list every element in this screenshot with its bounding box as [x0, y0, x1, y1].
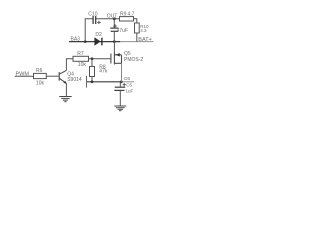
node junction R7 R8 gate: [91, 57, 94, 60]
label C10: [88, 12, 97, 18]
svg-text:S9014: S9014: [67, 77, 82, 83]
drain stub: [114, 62, 121, 64]
node junction 47uF riser rail1: [113, 40, 116, 43]
resistor R6: [34, 73, 47, 78]
svg-text:10k: 10k: [36, 80, 45, 86]
plus sign of C5: [123, 83, 126, 86]
capacitor C10: [93, 16, 96, 24]
svg-text:D5: D5: [124, 76, 130, 81]
transistor Q4: [59, 70, 66, 83]
wire R10 bottom lead: [136, 33, 138, 42]
svg-text:OUT: OUT: [107, 14, 118, 20]
ground G2 under C5: [114, 106, 126, 111]
wire C10 to OUT node and R9: [96, 18, 120, 20]
svg-text:BAT+: BAT+: [138, 37, 152, 43]
svg-text:R9: R9: [120, 12, 127, 18]
diode D2: [94, 37, 100, 45]
label OUT net: [107, 14, 118, 20]
resistor R9: [120, 17, 134, 21]
wire Q4 emitter riser to ground: [65, 83, 67, 96]
label PMOS-2: [124, 57, 143, 63]
wire R8 top lead: [91, 59, 93, 67]
wire C5 stem upper: [119, 82, 121, 87]
plus sign of C10: [97, 21, 100, 24]
label R9: [120, 12, 135, 18]
wire 47uF riser bottom: [113, 31, 115, 41]
Q5 arrow: [115, 53, 120, 56]
wire Q5 source pin up to rail1: [113, 42, 115, 53]
bulk stub: [114, 54, 121, 56]
label R10: [140, 24, 149, 29]
label R6: [36, 68, 43, 74]
svg-text:10k: 10k: [78, 62, 87, 68]
label PWM: [16, 72, 30, 78]
svg-text:Q5: Q5: [124, 51, 131, 57]
resistor R8: [90, 67, 95, 77]
label C5: [126, 82, 132, 87]
svg-text:PWM: PWM: [16, 72, 30, 78]
label 4.3 of R10: [140, 28, 147, 33]
node junction OUT: [113, 18, 116, 21]
label BAT+ net: [138, 37, 152, 43]
wire stub at rail2 left end: [86, 76, 88, 88]
svg-text:4.7: 4.7: [128, 12, 135, 18]
wire R7 to Q5 gate: [89, 58, 111, 60]
right bar: [121, 55, 123, 64]
svg-text:1uF: 1uF: [126, 89, 134, 94]
svg-text:R7: R7: [77, 51, 84, 57]
node junction R8 rail2: [91, 80, 94, 83]
label R8: [99, 64, 106, 70]
wire rail1 light right segment: [120, 41, 153, 43]
wire C10 riser from rail1: [85, 19, 93, 42]
channel bar: [113, 53, 115, 65]
node junction C10 riser rail1: [84, 40, 87, 43]
ground G1 under Q4: [59, 97, 71, 102]
svg-text:C5: C5: [126, 82, 132, 87]
label 1uF of C5: [126, 89, 134, 94]
capacitor C5: [114, 87, 125, 90]
svg-text:4.3: 4.3: [140, 28, 147, 33]
wire C5 stem lower to ground: [119, 91, 121, 106]
svg-text:BA3: BA3: [71, 37, 81, 43]
label 47uF: [117, 28, 128, 34]
wire R6 to Q4 base: [46, 75, 59, 77]
label Q5: [124, 51, 131, 57]
label D5 net on rail2: [124, 76, 130, 81]
label S9014: [67, 77, 82, 83]
svg-text:C10: C10: [88, 12, 97, 18]
label BA3 net: [71, 37, 81, 43]
svg-text:47uF: 47uF: [117, 28, 128, 34]
wire Q4 collector riser to R7: [66, 59, 73, 71]
wire 47uF riser top: [113, 19, 115, 28]
capacitor C4 47uF: [110, 28, 118, 31]
wire R9 to R10 corner: [134, 19, 137, 23]
label Q4: [67, 72, 74, 78]
svg-text:47k: 47k: [99, 69, 108, 75]
transistor Q5 PMOS: [111, 53, 122, 65]
resistor R7: [73, 56, 89, 61]
wire PWM input to R6: [15, 75, 34, 77]
gate bar: [110, 54, 112, 64]
wire rail2 light right segment: [122, 81, 135, 83]
resistor R10: [135, 23, 140, 33]
label D2: [95, 32, 102, 38]
label 47k of R8: [99, 69, 108, 75]
label R7: [77, 51, 84, 57]
svg-text:Q4: Q4: [67, 72, 74, 78]
wire Q5 drain riser: [121, 63, 123, 82]
wire R8 bottom lead: [91, 77, 93, 82]
plus sign of 47uF: [113, 24, 116, 27]
svg-text:PMOS-2: PMOS-2: [124, 57, 143, 63]
svg-text:R6: R6: [36, 68, 43, 74]
label 10k of R6: [36, 80, 45, 86]
svg-text:D2: D2: [95, 32, 102, 38]
Q4 emitter arrow: [63, 81, 66, 84]
label 10k of R7: [78, 62, 87, 68]
wire rail2 drain output net: [87, 81, 122, 83]
node junction Q5 drain C5 rail2: [120, 80, 123, 83]
wire rail1 top net: [69, 41, 120, 43]
